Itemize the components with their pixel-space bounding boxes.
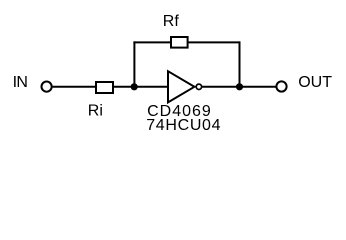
wire IN terminal to Ri [53, 86, 96, 88]
wire feedback right vertical [239, 41, 241, 86]
resistor Rf [171, 37, 188, 48]
svg-text:74HCU04: 74HCU04 [146, 117, 221, 134]
resistor Ri [96, 82, 113, 93]
wire feedback top horizontal [133, 41, 240, 43]
IN terminal [42, 82, 52, 92]
svg-text:OUT: OUT [298, 74, 332, 91]
node input junction [131, 83, 138, 90]
wire feedback left vertical [133, 41, 135, 86]
wire Ri to inverter input [113, 86, 168, 88]
op-amp U1 output bubble [196, 84, 201, 89]
svg-text:Ri: Ri [88, 103, 103, 120]
op-amp U1 inverter triangle [168, 71, 194, 102]
node output junction [236, 83, 243, 90]
wire inverter output to OUT terminal [202, 86, 277, 88]
OUT terminal [276, 81, 286, 91]
svg-text:Rf: Rf [163, 13, 180, 30]
svg-text:IN: IN [13, 74, 28, 91]
